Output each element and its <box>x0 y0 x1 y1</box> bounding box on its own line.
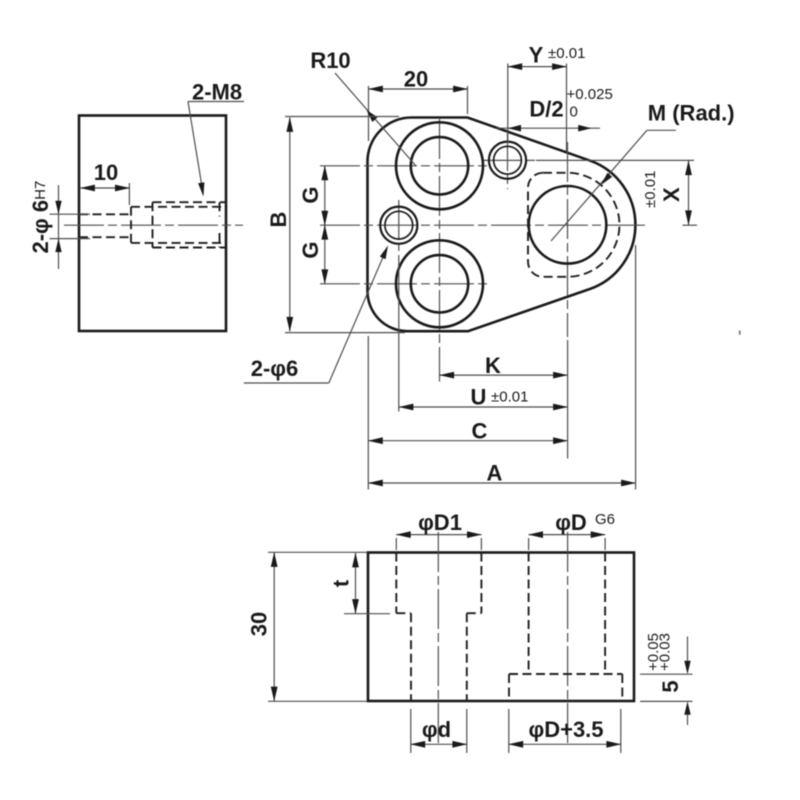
dimension phid <box>411 709 467 753</box>
dimension 5 with tolerance <box>640 633 693 725</box>
side view M8 tap hole hidden lines <box>131 202 226 247</box>
svg-text:K: K <box>485 353 501 378</box>
svg-text:5: 5 <box>658 680 683 692</box>
small hole left phi6 <box>380 207 417 244</box>
dimension X <box>642 161 689 225</box>
dimension phiD G6 <box>529 510 615 550</box>
svg-text:G: G <box>298 241 323 258</box>
front view centerlines <box>320 119 697 382</box>
dimension phiD+3.5 <box>509 709 621 753</box>
svg-text:Y: Y <box>529 43 544 68</box>
side view phi6 hole hidden lines <box>79 207 131 243</box>
svg-text:+0.03: +0.03 <box>657 633 674 671</box>
svg-text:φd: φd <box>422 717 451 742</box>
counterbore hole top-left <box>396 122 483 209</box>
dimension D/2 <box>496 86 613 132</box>
hidden pocket phiD+3.5 <box>528 173 619 277</box>
svg-text:10: 10 <box>94 160 118 185</box>
label M (Rad.) with leader <box>551 101 735 242</box>
bottom view body <box>368 553 634 702</box>
bottom view phiD1 counterbore hidden <box>396 553 481 614</box>
label 2-M8 with leader <box>188 80 244 197</box>
side view centerline <box>64 224 243 226</box>
front view outline <box>368 118 636 332</box>
svg-text:X: X <box>659 187 684 202</box>
bottom view pocket phiD+3.5 hidden <box>509 674 622 701</box>
dimension G upper <box>298 166 325 225</box>
stray mark artifact <box>739 331 741 335</box>
small hole top M8 <box>489 142 526 179</box>
dimension A <box>368 245 635 490</box>
svg-text:2-M8: 2-M8 <box>192 80 242 105</box>
svg-text:R10: R10 <box>310 48 350 73</box>
svg-text:±0.01: ±0.01 <box>642 171 659 208</box>
dimension phiD1 <box>396 510 481 550</box>
svg-text:2-φ 6H7: 2-φ 6H7 <box>28 181 53 254</box>
dimension U <box>399 255 568 412</box>
svg-text:+0.025: +0.025 <box>567 86 613 103</box>
svg-text:2-φ6: 2-φ6 <box>251 356 299 381</box>
dimension Y <box>508 43 586 152</box>
svg-text:G: G <box>298 186 323 203</box>
svg-text:U: U <box>471 385 487 410</box>
svg-text:A: A <box>486 461 502 486</box>
svg-text:B: B <box>266 212 291 228</box>
main bore circle phiD <box>529 186 607 264</box>
svg-text:±0.01: ±0.01 <box>548 45 585 62</box>
dimension 10 <box>81 160 130 205</box>
svg-text:φD: φD <box>555 510 587 535</box>
svg-text:t: t <box>329 579 354 587</box>
bottom view centerlines <box>438 532 567 745</box>
bottom view phid hole hidden <box>411 613 467 701</box>
svg-text:D/2: D/2 <box>529 97 563 122</box>
dimension B <box>266 117 405 333</box>
dimension 30 <box>247 552 368 701</box>
label 2-phi6 with leader <box>244 246 388 384</box>
svg-text:C: C <box>472 419 488 444</box>
svg-text:30: 30 <box>247 612 272 636</box>
counterbore hole bottom-left <box>396 240 483 327</box>
dimension t <box>329 553 391 614</box>
dimension G lower <box>298 225 325 284</box>
dimension 20 <box>369 67 468 142</box>
svg-text:±0.01: ±0.01 <box>491 389 528 406</box>
side view body <box>79 116 226 332</box>
svg-text:φD1: φD1 <box>418 510 462 535</box>
bottom view phiD bore hidden <box>529 553 606 675</box>
svg-text:0: 0 <box>570 104 578 121</box>
label R10 with leader <box>310 48 416 166</box>
svg-text:G6: G6 <box>595 511 615 528</box>
dimension 2-phi6 arrows <box>50 185 91 269</box>
dimension C <box>368 336 567 490</box>
label 2-phi6 H7 <box>28 181 53 254</box>
svg-text:M (Rad.): M (Rad.) <box>648 101 735 126</box>
dimension K <box>440 340 568 459</box>
svg-text:20: 20 <box>404 67 428 92</box>
svg-text:φD+3.5: φD+3.5 <box>528 717 603 742</box>
